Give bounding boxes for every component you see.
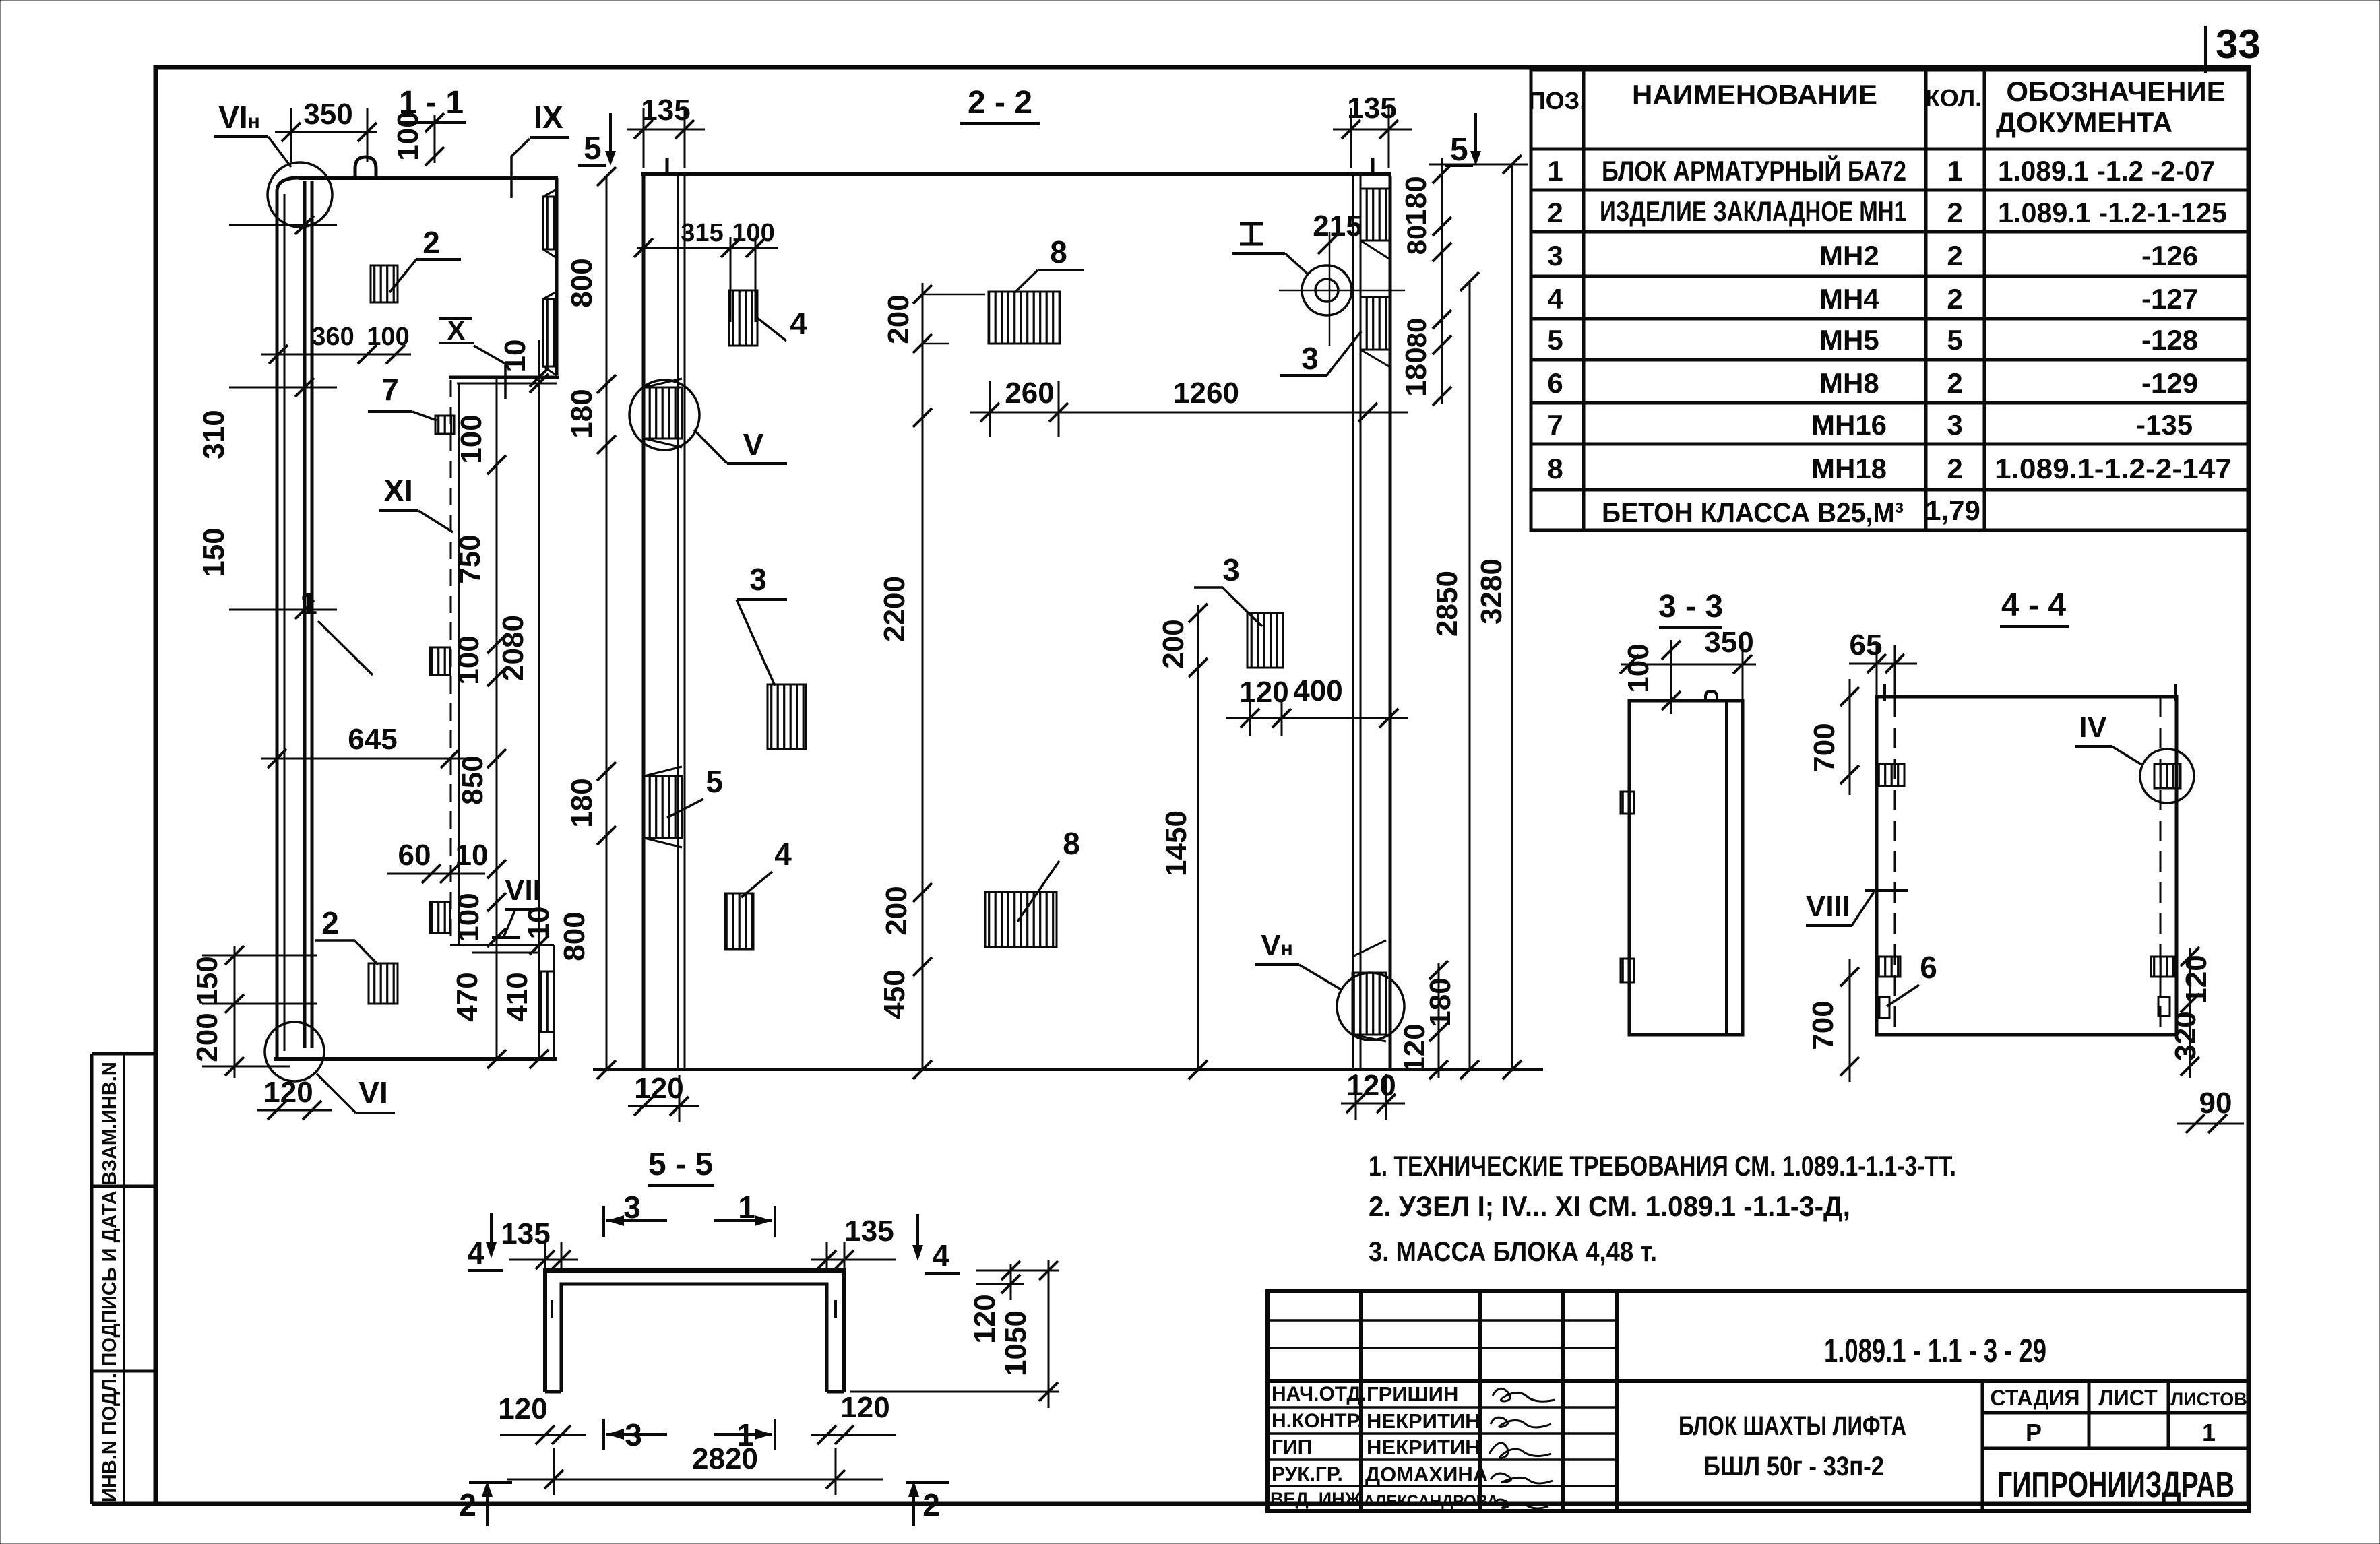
svg-text:2: 2 bbox=[321, 905, 339, 940]
svg-text:750: 750 bbox=[453, 534, 487, 583]
svg-text:5 - 5: 5 - 5 bbox=[648, 1147, 713, 1182]
svg-text:РУК.ГР.: РУК.ГР. bbox=[1272, 1463, 1343, 1485]
svg-text:1.089.1-1.2-2-147: 1.089.1-1.2-2-147 bbox=[1995, 453, 2232, 484]
svg-text:360: 360 bbox=[311, 323, 354, 351]
svg-text:800: 800 bbox=[558, 911, 591, 961]
svg-text:200: 200 bbox=[1157, 619, 1190, 668]
svg-text:3: 3 bbox=[1547, 240, 1563, 271]
svg-text:V: V bbox=[743, 427, 764, 462]
svg-text:4: 4 bbox=[1547, 283, 1563, 315]
svg-text:БЛОК АРМАТУРНЫЙ БА72: БЛОК АРМАТУРНЫЙ БА72 bbox=[1602, 154, 1906, 187]
svg-text:БЕТОН КЛАССА В25,М³: БЕТОН КЛАССА В25,М³ bbox=[1602, 496, 1904, 528]
svg-text:ИНВ.N ПОДЛ.: ИНВ.N ПОДЛ. bbox=[99, 1373, 121, 1502]
svg-text:180: 180 bbox=[1400, 347, 1433, 396]
svg-text:7: 7 bbox=[381, 372, 399, 407]
svg-text:БЛОК ШАХТЫ ЛИФТА: БЛОК ШАХТЫ ЛИФТА bbox=[1679, 1411, 1906, 1441]
svg-text:100: 100 bbox=[455, 414, 488, 463]
svg-text:315: 315 bbox=[681, 219, 723, 247]
svg-text:6: 6 bbox=[1920, 950, 1937, 985]
svg-text:1.089.1 -1.2 -2-07: 1.089.1 -1.2 -2-07 bbox=[1998, 155, 2215, 187]
svg-text:2080: 2080 bbox=[497, 615, 530, 681]
svg-text:10: 10 bbox=[456, 839, 489, 872]
svg-text:1,79: 1,79 bbox=[1925, 494, 1980, 526]
svg-text:АЛЕКСАНДРОВА: АЛЕКСАНДРОВА bbox=[1363, 1492, 1499, 1510]
svg-text:2: 2 bbox=[1947, 283, 1962, 315]
svg-text:1: 1 bbox=[1947, 155, 1962, 187]
svg-text:НАЧ.ОТД.: НАЧ.ОТД. bbox=[1272, 1383, 1367, 1405]
svg-text:8: 8 bbox=[1050, 234, 1067, 269]
svg-text:МН4: МН4 bbox=[1819, 283, 1879, 315]
svg-text:БШЛ 50г - 33п-2: БШЛ 50г - 33п-2 bbox=[1703, 1452, 1884, 1481]
svg-text:ГИПРОНИИЗДРАВ: ГИПРОНИИЗДРАВ bbox=[1997, 1465, 2234, 1505]
svg-text:ОБОЗНАЧЕНИЕ: ОБОЗНАЧЕНИЕ bbox=[2006, 75, 2225, 107]
svg-text:МН18: МН18 bbox=[1811, 453, 1887, 484]
svg-text:150: 150 bbox=[197, 527, 230, 577]
svg-text:ДОМАХИНА: ДОМАХИНА bbox=[1365, 1462, 1488, 1486]
svg-text:-128: -128 bbox=[2141, 324, 2198, 356]
svg-text:2: 2 bbox=[922, 1487, 940, 1522]
svg-text:180: 180 bbox=[1424, 977, 1457, 1027]
svg-text:645: 645 bbox=[348, 723, 397, 756]
svg-text:215: 215 bbox=[1313, 210, 1362, 243]
svg-text:IV: IV bbox=[2079, 711, 2107, 744]
svg-text:120: 120 bbox=[1398, 1023, 1431, 1072]
svg-text:400: 400 bbox=[1293, 674, 1342, 707]
svg-text:3: 3 bbox=[749, 562, 767, 597]
svg-text:-129: -129 bbox=[2141, 367, 2198, 399]
svg-text:МН5: МН5 bbox=[1819, 324, 1879, 356]
svg-text:-127: -127 bbox=[2141, 283, 2198, 315]
svg-text:5: 5 bbox=[1450, 132, 1468, 168]
svg-text:120: 120 bbox=[498, 1392, 547, 1425]
svg-text:120: 120 bbox=[1346, 1069, 1396, 1102]
svg-text:135: 135 bbox=[641, 94, 690, 127]
svg-text:ГРИШИН: ГРИШИН bbox=[1367, 1382, 1458, 1406]
svg-text:МН16: МН16 bbox=[1811, 409, 1887, 441]
svg-text:120: 120 bbox=[968, 1294, 1001, 1343]
svg-text:5: 5 bbox=[706, 764, 723, 799]
svg-text:ЛИСТ: ЛИСТ bbox=[2098, 1386, 2158, 1410]
svg-text:320: 320 bbox=[2169, 1011, 2202, 1060]
svg-text:X: X bbox=[447, 316, 466, 346]
svg-text:10: 10 bbox=[522, 907, 555, 940]
svg-text:2: 2 bbox=[459, 1487, 476, 1522]
svg-text:2: 2 bbox=[422, 225, 440, 260]
svg-text:ЛИСТОВ: ЛИСТОВ bbox=[2170, 1389, 2247, 1409]
svg-text:700: 700 bbox=[1807, 1000, 1840, 1050]
svg-text:3 - 3: 3 - 3 bbox=[1658, 589, 1723, 624]
svg-text:4: 4 bbox=[790, 306, 807, 341]
svg-text:180: 180 bbox=[565, 389, 598, 438]
svg-text:80: 80 bbox=[1402, 225, 1432, 255]
svg-text:5: 5 bbox=[584, 131, 602, 166]
svg-text:135: 135 bbox=[501, 1217, 550, 1250]
svg-text:1.089.1 - 1.1 - 3 - 29: 1.089.1 - 1.1 - 3 - 29 bbox=[1824, 1332, 2046, 1370]
svg-text:4: 4 bbox=[774, 837, 792, 872]
svg-text:2: 2 bbox=[1547, 197, 1563, 228]
svg-text:НЕКРИТИН: НЕКРИТИН bbox=[1367, 1436, 1480, 1459]
svg-text:410: 410 bbox=[501, 972, 534, 1021]
svg-text:120: 120 bbox=[840, 1391, 889, 1424]
svg-text:3280: 3280 bbox=[1475, 558, 1508, 624]
svg-text:150: 150 bbox=[191, 956, 224, 1005]
svg-text:Н.КОНТР.: Н.КОНТР. bbox=[1272, 1410, 1363, 1432]
svg-text:2200: 2200 bbox=[878, 576, 911, 642]
svg-text:350: 350 bbox=[1704, 626, 1753, 659]
svg-text:2: 2 bbox=[1947, 367, 1962, 399]
svg-text:ВЗАМ.ИНВ.N: ВЗАМ.ИНВ.N bbox=[99, 1062, 121, 1186]
svg-text:1.089.1 -1.2-1-125: 1.089.1 -1.2-1-125 bbox=[1998, 197, 2227, 228]
svg-text:350: 350 bbox=[303, 98, 352, 131]
svg-text:ПОЗ.: ПОЗ. bbox=[1528, 87, 1586, 115]
svg-text:120: 120 bbox=[263, 1076, 313, 1109]
svg-text:НАИМЕНОВАНИЕ: НАИМЕНОВАНИЕ bbox=[1632, 79, 1877, 110]
svg-text:VIII: VIII bbox=[1806, 890, 1850, 923]
svg-text:200: 200 bbox=[880, 886, 913, 935]
svg-text:4 - 4: 4 - 4 bbox=[2001, 587, 2066, 623]
svg-text:180: 180 bbox=[1400, 176, 1433, 225]
svg-text:310: 310 bbox=[197, 410, 230, 459]
svg-text:5: 5 bbox=[1547, 324, 1563, 356]
svg-text:1050: 1050 bbox=[999, 1310, 1032, 1376]
svg-text:1: 1 bbox=[300, 586, 317, 621]
svg-text:-126: -126 bbox=[2141, 240, 2198, 271]
svg-text:ГИП: ГИП bbox=[1272, 1436, 1312, 1458]
svg-text:8: 8 bbox=[1547, 453, 1563, 484]
svg-text:ПОДПИСЬ И ДАТА: ПОДПИСЬ И ДАТА bbox=[99, 1190, 121, 1366]
svg-text:1: 1 bbox=[1547, 155, 1563, 187]
svg-text:2: 2 bbox=[1947, 453, 1962, 484]
svg-text:2. УЗЕЛ I; IV... XI СМ. 1.: 2. УЗЕЛ I; IV... XI СМ. 1.089.1 -1.1-3-Д… bbox=[1369, 1190, 1850, 1222]
svg-text:4: 4 bbox=[467, 1235, 484, 1270]
svg-text:ВЕД. ИНЖ.: ВЕД. ИНЖ. bbox=[1270, 1489, 1367, 1509]
svg-text:5: 5 bbox=[1947, 324, 1962, 356]
svg-text:800: 800 bbox=[565, 258, 598, 307]
svg-text:3: 3 bbox=[1222, 552, 1240, 587]
svg-text:100: 100 bbox=[392, 111, 425, 160]
svg-text:3: 3 bbox=[1301, 341, 1319, 376]
svg-text:IX: IX bbox=[534, 100, 563, 135]
svg-text:ДОКУМЕНТА: ДОКУМЕНТА bbox=[1996, 106, 2172, 138]
svg-text:470: 470 bbox=[451, 972, 484, 1021]
svg-text:10: 10 bbox=[499, 340, 532, 373]
svg-text:СТАДИЯ: СТАДИЯ bbox=[1991, 1386, 2080, 1410]
svg-text:Р: Р bbox=[2026, 1419, 2042, 1446]
svg-text:260: 260 bbox=[1005, 377, 1054, 410]
svg-text:200: 200 bbox=[882, 294, 915, 344]
svg-text:2: 2 bbox=[1947, 197, 1962, 228]
svg-text:80: 80 bbox=[1402, 318, 1432, 348]
svg-text:КОЛ.: КОЛ. bbox=[1925, 84, 1982, 112]
svg-text:60: 60 bbox=[398, 839, 431, 872]
svg-text:200: 200 bbox=[191, 1012, 224, 1062]
svg-text:Vн: Vн bbox=[1261, 929, 1292, 962]
svg-text:НЕКРИТИН: НЕКРИТИН bbox=[1367, 1409, 1480, 1433]
svg-text:2: 2 bbox=[1947, 240, 1962, 271]
svg-text:120: 120 bbox=[634, 1072, 683, 1105]
svg-text:3. МАССА БЛОКА 4,48 т.: 3. МАССА БЛОКА 4,48 т. bbox=[1369, 1235, 1657, 1267]
svg-text:XI: XI bbox=[383, 473, 412, 508]
svg-text:180: 180 bbox=[565, 778, 598, 827]
svg-text:VIн: VIн bbox=[218, 100, 260, 135]
svg-text:8: 8 bbox=[1063, 826, 1080, 861]
svg-text:850: 850 bbox=[456, 755, 489, 804]
svg-text:VII: VII bbox=[505, 874, 541, 907]
svg-text:2850: 2850 bbox=[1431, 571, 1464, 637]
svg-text:100: 100 bbox=[732, 219, 774, 247]
svg-text:МН2: МН2 bbox=[1819, 240, 1879, 271]
svg-text:100: 100 bbox=[452, 635, 485, 684]
svg-text:135: 135 bbox=[844, 1215, 894, 1248]
svg-text:4: 4 bbox=[932, 1238, 949, 1273]
svg-text:100: 100 bbox=[452, 893, 485, 942]
svg-text:33: 33 bbox=[2216, 22, 2261, 67]
svg-text:450: 450 bbox=[878, 969, 911, 1019]
svg-text:1. ТЕХНИЧЕСКИЕ ТРЕБОВАНИЯ С: 1. ТЕХНИЧЕСКИЕ ТРЕБОВАНИЯ СМ. 1.089.1-1.… bbox=[1369, 1150, 1956, 1182]
svg-text:700: 700 bbox=[1808, 723, 1841, 772]
svg-text:VI: VI bbox=[358, 1075, 387, 1110]
svg-text:7: 7 bbox=[1547, 409, 1563, 441]
svg-text:1450: 1450 bbox=[1160, 810, 1193, 876]
svg-text:6: 6 bbox=[1547, 367, 1563, 399]
svg-text:-135: -135 bbox=[2136, 409, 2193, 441]
svg-text:1: 1 bbox=[2202, 1419, 2216, 1446]
svg-text:1260: 1260 bbox=[1173, 377, 1239, 410]
svg-text:2820: 2820 bbox=[692, 1442, 758, 1475]
svg-text:3: 3 bbox=[1947, 409, 1962, 441]
svg-text:МН8: МН8 bbox=[1819, 367, 1879, 399]
svg-text:2 - 2: 2 - 2 bbox=[968, 85, 1032, 121]
svg-text:ИЗДЕЛИЕ ЗАКЛАДНОЕ МН1: ИЗДЕЛИЕ ЗАКЛАДНОЕ МН1 bbox=[1600, 195, 1906, 227]
